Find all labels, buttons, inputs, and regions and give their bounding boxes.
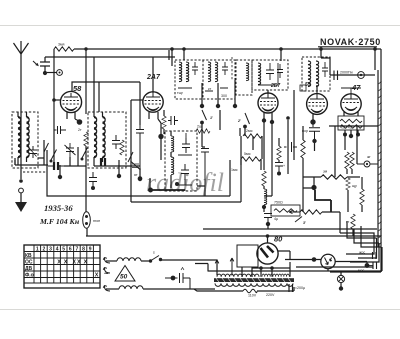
cap C-osc	[136, 125, 144, 177]
svg-text:1мя: 1мя	[231, 168, 237, 172]
staircase w4	[361, 226, 381, 247]
cap I3	[266, 63, 274, 80]
wire coil leads	[94, 57, 103, 166]
svg-text:тщг: тщг	[177, 91, 184, 95]
terminal circle	[19, 188, 24, 193]
mains wire top	[106, 260, 117, 262]
svg-text:47: 47	[351, 83, 361, 92]
fuse	[194, 287, 294, 291]
cap det	[201, 149, 209, 197]
trimmer arrow	[33, 61, 37, 65]
padder cap thick	[54, 162, 58, 170]
tube V2 legs	[149, 112, 161, 134]
svg-text:X: X	[57, 260, 61, 266]
box A outline	[47, 150, 230, 196]
coil I2a	[208, 62, 211, 82]
cap C-sp1	[373, 252, 377, 259]
svg-text:3: 3	[49, 247, 52, 253]
osc coil box	[165, 131, 197, 191]
svg-text:~: ~	[104, 269, 109, 278]
wire	[202, 124, 205, 147]
coil I3	[258, 63, 261, 85]
svg-text:8: 8	[82, 247, 85, 253]
capacitor C-ant	[40, 57, 50, 71]
cap I2	[222, 62, 228, 75]
wire V2 top	[152, 57, 154, 92]
svg-text:80: 80	[274, 235, 283, 244]
neon lamp	[83, 212, 91, 228]
node	[118, 160, 120, 174]
staircase w3	[350, 229, 379, 262]
wire V4 top to bus	[316, 85, 318, 91]
resistor R-st	[351, 214, 355, 229]
wire V5 top	[341, 88, 361, 93]
speaker	[321, 254, 335, 268]
resistor R-ant 3m	[54, 47, 74, 51]
wires under	[347, 169, 352, 174]
cap C-sp2	[373, 262, 377, 270]
pilot lamp	[337, 275, 344, 282]
bus hatching	[379, 81, 382, 84]
wire bus2	[45, 56, 175, 58]
wire thick L	[315, 190, 331, 212]
dashed compartment	[236, 60, 252, 95]
node x375	[373, 47, 377, 51]
svg-text:1: 1	[36, 247, 39, 253]
wire V2 grid left	[131, 99, 143, 101]
cap C-sg	[275, 163, 283, 173]
tube V1 legs	[67, 112, 79, 121]
wire osc bottom heavy	[150, 189, 185, 191]
meter circle	[358, 72, 365, 79]
wire to transformer	[161, 260, 217, 275]
hook b	[103, 268, 110, 274]
svg-text:мос: мос	[358, 269, 364, 273]
tap arrow 2	[230, 258, 234, 276]
svg-text:ОС: ОС	[25, 259, 33, 265]
wire grid V1	[54, 99, 61, 101]
node	[139, 168, 141, 177]
cap C-k2	[168, 116, 178, 125]
node	[43, 71, 47, 75]
scan page bottom edge	[0, 309, 400, 311]
arrow	[28, 146, 37, 157]
coil I2b	[215, 62, 218, 82]
cap C-2000	[289, 284, 293, 292]
valve table	[24, 245, 100, 288]
triangle 50	[115, 266, 135, 282]
resistor R-left vertical	[301, 140, 305, 158]
svg-text:5мя: 5мя	[244, 152, 250, 156]
wire coil leads	[18, 112, 27, 165]
svg-text:жг: жг	[367, 155, 371, 159]
wire tuning extras	[15, 140, 78, 166]
svg-text:6: 6	[69, 247, 72, 253]
cap I1	[192, 62, 198, 75]
switch S1b	[44, 143, 49, 152]
det coil box I3	[252, 60, 288, 90]
tube V5 frame legs	[344, 112, 358, 116]
variable cap C-v1	[65, 143, 76, 157]
choke coil 1	[117, 258, 141, 261]
resistor R-osc	[120, 140, 124, 155]
cap C-left plates	[284, 142, 297, 152]
svg-text:4µ: 4µ	[274, 217, 278, 221]
svg-text:2Б7: 2Б7	[270, 83, 280, 89]
bottom right bus	[208, 247, 382, 271]
mains wire bottom	[106, 288, 119, 290]
wire bus drop left	[53, 49, 55, 57]
transformer core	[214, 278, 294, 282]
tube V3 legs	[264, 112, 272, 120]
tube V5 47	[341, 94, 361, 114]
box R750	[271, 205, 300, 216]
resistor R-k2	[162, 116, 166, 129]
wire v357	[356, 126, 358, 164]
svg-text:зм: зм	[323, 170, 328, 174]
jack circle	[47, 72, 57, 74]
wires R cluster	[241, 136, 262, 170]
cap C-g1	[54, 126, 66, 134]
node	[350, 130, 352, 134]
transformer top leads	[252, 262, 290, 277]
coil I3c	[246, 63, 249, 81]
switch S1	[51, 150, 57, 161]
wire I3	[258, 63, 278, 85]
svg-text:нгон: нгон	[93, 219, 100, 223]
wire x54 down	[53, 57, 55, 170]
svg-text:1': 1'	[210, 116, 213, 120]
ground	[15, 202, 27, 212]
svg-text:2мя: 2мя	[246, 129, 252, 133]
tube V1 58	[60, 91, 81, 112]
svg-text:≈200µ: ≈200µ	[295, 286, 305, 290]
svg-text:3мя: 3мя	[58, 43, 64, 47]
svg-text:+: +	[283, 164, 285, 168]
switch S-osc	[128, 152, 133, 162]
svg-text:ят: ят	[134, 173, 138, 177]
bus line mid2	[86, 235, 381, 237]
svg-text:КВ: КВ	[25, 253, 32, 259]
svg-text:9: 9	[89, 247, 92, 253]
cap C4u	[264, 214, 272, 223]
svg-text:58: 58	[73, 84, 82, 93]
wire drop x281	[280, 49, 282, 61]
wire osc leads	[170, 131, 172, 188]
svg-text:X: X	[72, 260, 76, 266]
svg-text:M.F 104 Кн: M.F 104 Кн	[39, 217, 80, 226]
tuning coil box L2	[88, 112, 126, 168]
coil L2b	[103, 117, 106, 157]
wire drop x172	[171, 49, 173, 66]
power transformer primary b	[262, 274, 289, 277]
wire det down	[264, 122, 272, 170]
tube V6 80	[257, 243, 278, 264]
cap in box L2	[112, 135, 120, 149]
power transformer primary a	[217, 274, 259, 277]
svg-text:300: 300	[221, 94, 227, 98]
resistor R-det vertical	[262, 171, 266, 186]
cap C-line	[171, 276, 176, 281]
svg-text:4: 4	[56, 247, 59, 253]
tube V4 legs	[312, 113, 314, 120]
wire det grid	[267, 90, 269, 93]
svg-text:2': 2'	[237, 119, 241, 123]
cap I3b	[277, 64, 283, 78]
svg-text:5: 5	[62, 247, 65, 253]
resistor R-sg vertical	[277, 146, 281, 160]
wire top right area	[330, 74, 375, 76]
wire speaker feed	[285, 259, 321, 261]
svg-text:2000Пи: 2000Пи	[340, 71, 353, 75]
wire elbow left	[195, 264, 208, 272]
trimmer cap C-t1	[29, 146, 37, 158]
wire drop x86	[85, 49, 87, 114]
switch S3'	[295, 217, 302, 223]
node big	[311, 185, 316, 190]
svg-text:750Ω: 750Ω	[274, 201, 283, 205]
svg-text:X: X	[84, 260, 88, 266]
wire bottom L2	[94, 165, 140, 167]
rectifier box leads	[242, 267, 252, 277]
svg-text:2: 2	[43, 247, 46, 253]
wire	[64, 155, 86, 166]
right IF box I4	[302, 57, 330, 91]
switch S2'	[245, 113, 250, 124]
wire tube80 right	[278, 251, 290, 260]
box R-bias	[338, 116, 364, 130]
svg-text:ДВ: ДВ	[25, 266, 33, 272]
wire drop x184	[183, 49, 185, 60]
svg-text:220V: 220V	[266, 293, 275, 297]
variable cap C-v2	[131, 161, 141, 170]
wire v169	[168, 50, 170, 60]
cap osc1	[182, 138, 190, 153]
resistor R 5m	[241, 157, 261, 161]
coil choke det	[264, 189, 267, 205]
node	[262, 205, 266, 209]
wire right top	[321, 57, 330, 75]
resistor R-k1 2t	[84, 132, 88, 146]
hook c	[103, 286, 110, 292]
wire 58 top cap	[72, 82, 140, 125]
coil L1b	[27, 117, 30, 157]
wire hplate	[329, 125, 378, 127]
IF box I2	[202, 60, 204, 99]
svg-text:50: 50	[120, 274, 128, 281]
resistor R 2sch	[196, 129, 210, 133]
hook a	[103, 258, 110, 264]
coil I1a	[179, 62, 182, 82]
coil L2a	[94, 117, 97, 157]
tap arrow 1	[215, 260, 219, 276]
coil I1b	[186, 62, 189, 82]
coil T-osc-a	[171, 136, 174, 152]
svg-text:3': 3'	[303, 221, 306, 225]
nodes transformer	[259, 266, 263, 270]
svg-text:NOVAK·2750: NOVAK·2750	[320, 37, 381, 47]
coil I4b	[316, 61, 319, 86]
svg-text:2щ: 2щ	[197, 125, 202, 129]
node x321	[319, 47, 323, 51]
svg-text:110V: 110V	[248, 294, 257, 298]
jack circle out	[364, 161, 370, 167]
resistor Rh10 3m	[321, 175, 347, 179]
dashed stub	[23, 171, 46, 173]
wire cathode V2	[160, 139, 162, 160]
wire right edge low	[330, 271, 381, 273]
tuning coil box L1	[12, 112, 38, 168]
resistor R3000	[360, 189, 364, 205]
node stems row	[202, 80, 235, 104]
wire	[267, 224, 269, 229]
resistor Rv1	[345, 152, 349, 169]
wire	[263, 186, 265, 212]
switch S-mains	[149, 259, 152, 262]
wire v335	[334, 126, 336, 177]
rectifier box	[237, 245, 258, 267]
svg-text:X: X	[77, 260, 81, 266]
wire tuning bottom	[15, 160, 48, 165]
svg-text:7: 7	[76, 247, 79, 253]
wire to ground	[20, 193, 22, 202]
tube V2 2A7	[143, 92, 163, 112]
wire	[85, 146, 87, 155]
bus line mid1	[203, 228, 377, 230]
wire right bus	[380, 49, 382, 272]
box B outline	[131, 150, 241, 202]
transformer secondary	[215, 283, 293, 286]
choke coil 2	[119, 286, 143, 289]
antenna	[14, 41, 29, 54]
staircase w2	[347, 221, 377, 258]
svg-text:1935-36: 1935-36	[44, 203, 73, 213]
neon wire	[86, 166, 87, 236]
svg-text:2т: 2т	[78, 128, 82, 132]
resistor small	[346, 178, 350, 190]
svg-text:X: X	[64, 260, 68, 266]
svg-text:щу: щу	[352, 184, 357, 188]
node	[365, 263, 370, 268]
wire top bus	[74, 48, 381, 50]
svg-text:жос: жос	[359, 251, 365, 255]
coil L1a	[18, 117, 21, 157]
wire tube80 top	[267, 236, 269, 243]
node antenna junction	[19, 179, 23, 183]
wire mid extras	[150, 178, 205, 196]
resistor R-2schu	[300, 210, 322, 214]
svg-text:s: s	[153, 251, 155, 255]
resistor R 2m	[243, 134, 262, 138]
switch S1'	[202, 110, 207, 120]
wire speaker to caps	[335, 262, 367, 265]
cap osc2	[181, 164, 189, 179]
arrow wire	[289, 210, 300, 213]
small sq symbol	[300, 85, 306, 91]
switch S2	[82, 148, 88, 159]
wire x131 long	[130, 100, 132, 202]
svg-text:Ф.о: Ф.о	[25, 272, 34, 278]
IF box interior wires	[178, 88, 228, 91]
svg-text:кт: кт	[208, 87, 212, 91]
resistor Rv2	[350, 152, 354, 169]
misc wires det area	[264, 130, 272, 196]
cap C-k4	[309, 124, 320, 139]
svg-text:X: X	[95, 273, 99, 279]
staircase w1	[340, 233, 374, 254]
padder cap 2 thick	[101, 158, 105, 166]
cap C-pad	[89, 172, 97, 186]
node in box	[59, 165, 61, 175]
cap C-top	[334, 71, 338, 81]
wire antenna down	[20, 54, 22, 179]
coil I4a	[308, 61, 311, 86]
node grid V1	[52, 98, 56, 102]
cap I4	[322, 62, 328, 77]
coil T-osc-b	[171, 157, 174, 175]
wire osc inner	[178, 133, 192, 185]
IF box I1	[175, 60, 235, 99]
scan page top edge	[0, 25, 400, 27]
wire mid verticals	[220, 110, 253, 150]
node	[84, 47, 87, 50]
